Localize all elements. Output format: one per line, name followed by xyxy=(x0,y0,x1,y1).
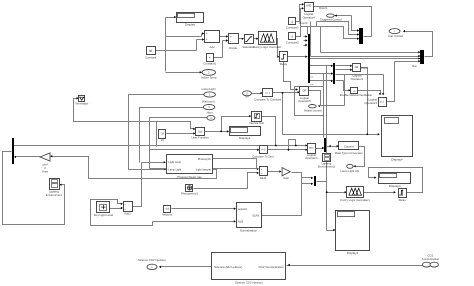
svg-text:Display3: Display3 xyxy=(389,184,401,188)
svg-text:Terminator: Terminator xyxy=(75,102,88,106)
svg-text:Convert: Convert xyxy=(344,145,354,149)
svg-text:== 1: == 1 xyxy=(265,92,270,95)
svg-text:Science CO2 Injection: Science CO2 Injection xyxy=(138,258,166,262)
svg-text:Gain: Gain xyxy=(283,176,289,180)
svg-text:Operator1: Operator1 xyxy=(305,156,318,160)
svg-text:Constant2: Constant2 xyxy=(286,26,299,30)
svg-text:Lamp Light: Lamp Light xyxy=(168,168,181,172)
svg-text:Flow=0: Flow=0 xyxy=(299,21,308,25)
svg-text:Environment1: Environment1 xyxy=(318,165,336,169)
svg-text:Fuzzy Logic Controller: Fuzzy Logic Controller xyxy=(253,45,281,49)
svg-text:Operator1: Operator1 xyxy=(351,77,364,81)
svg-text:+: + xyxy=(206,32,208,36)
svg-text:OR: OR xyxy=(355,66,359,69)
svg-text:Area: Area xyxy=(42,169,48,173)
svg-text:Photoperiod1: Photoperiod1 xyxy=(181,192,198,196)
svg-text:CO2 Concentration: CO2 Concentration xyxy=(258,265,284,269)
svg-text:ms: ms xyxy=(311,84,315,86)
svg-text:f(u): f(u) xyxy=(198,129,202,133)
svg-text:Add2: Add2 xyxy=(124,212,131,216)
svg-text:Add: Add xyxy=(210,45,215,49)
svg-text:Interval Test: Interval Test xyxy=(249,121,264,125)
svg-text:Light Level: Light Level xyxy=(168,160,181,164)
svg-text:AND: AND xyxy=(306,4,311,7)
svg-text:Enable Natural Ventilation: Enable Natural Ventilation xyxy=(340,93,373,97)
svg-text:ms: ms xyxy=(311,76,315,78)
svg-text:NLB: NLB xyxy=(238,220,243,224)
svg-text:Environment: Environment xyxy=(46,193,62,197)
svg-text:Display: Display xyxy=(185,23,195,27)
svg-text:Add1: Add1 xyxy=(260,176,267,180)
svg-text:Relay: Relay xyxy=(399,198,407,202)
svg-text:Compare To Zero: Compare To Zero xyxy=(252,154,274,158)
svg-text:Science (EU Lettuce): Science (EU Lettuce) xyxy=(214,265,242,269)
svg-text:Wall (sun): Wall (sun) xyxy=(202,100,215,104)
svg-text:Data Type Conversion: Data Type Conversion xyxy=(335,151,363,155)
svg-text:Light Integral: Light Integral xyxy=(196,168,211,172)
svg-text:Operator2: Operator2 xyxy=(364,101,377,105)
svg-text:>= 0: >= 0 xyxy=(261,148,266,151)
svg-text:OR: OR xyxy=(303,90,307,93)
svg-text:Display1: Display1 xyxy=(239,136,251,140)
svg-text:Flow=1: Flow=1 xyxy=(319,6,328,10)
svg-text:SLAN: SLAN xyxy=(252,214,259,218)
svg-text:Display4: Display4 xyxy=(391,158,403,162)
svg-text:Relay: Relay xyxy=(280,62,288,66)
svg-text:setpoint: setpoint xyxy=(238,207,247,211)
svg-text:Flop1: Flop1 xyxy=(361,67,368,70)
svg-text:Heater control: Heater control xyxy=(304,108,322,112)
svg-text:Lamp Light: Lamp Light xyxy=(202,87,216,91)
svg-text:setpoint: setpoint xyxy=(162,213,172,217)
svg-text:Normalization: Normalization xyxy=(240,229,258,233)
svg-text:Constant1: Constant1 xyxy=(203,62,216,66)
svg-text:Divide: Divide xyxy=(229,46,237,50)
svg-text:Photosynthesis rate: Photosynthesis rate xyxy=(177,175,202,179)
svg-text:Concentration: Concentration xyxy=(422,257,440,261)
svg-text:Hour: Hour xyxy=(207,110,213,114)
svg-text:AND: AND xyxy=(309,147,314,150)
svg-text:Operator5: Operator5 xyxy=(298,99,311,103)
svg-text:Fuzzy Logic Controller1: Fuzzy Logic Controller1 xyxy=(340,198,370,202)
svg-text:+: + xyxy=(206,38,208,42)
svg-text:80: 80 xyxy=(149,49,153,53)
svg-text:Lamp Light ON: Lamp Light ON xyxy=(340,169,359,173)
svg-text:User Function: User Function xyxy=(191,136,209,140)
svg-text:Mux: Mux xyxy=(412,65,417,68)
svg-text:Triggered Control: Triggered Control xyxy=(320,17,342,21)
svg-text:Compare To Constant: Compare To Constant xyxy=(254,98,281,102)
svg-text:Fan Control: Fan Control xyxy=(388,34,403,38)
svg-text:Operator4: Operator4 xyxy=(302,15,315,19)
svg-text:Constant: Constant xyxy=(145,55,156,59)
svg-text:Constant5: Constant5 xyxy=(286,40,299,44)
svg-text:Indoor Temp: Indoor Temp xyxy=(201,76,217,80)
svg-text:Science CO2 Injection: Science CO2 Injection xyxy=(235,281,263,285)
svg-text:Display2: Display2 xyxy=(347,251,359,255)
svg-text:Sun Light Level: Sun Light Level xyxy=(94,213,114,217)
svg-text:Photosynth: Photosynth xyxy=(198,157,212,161)
